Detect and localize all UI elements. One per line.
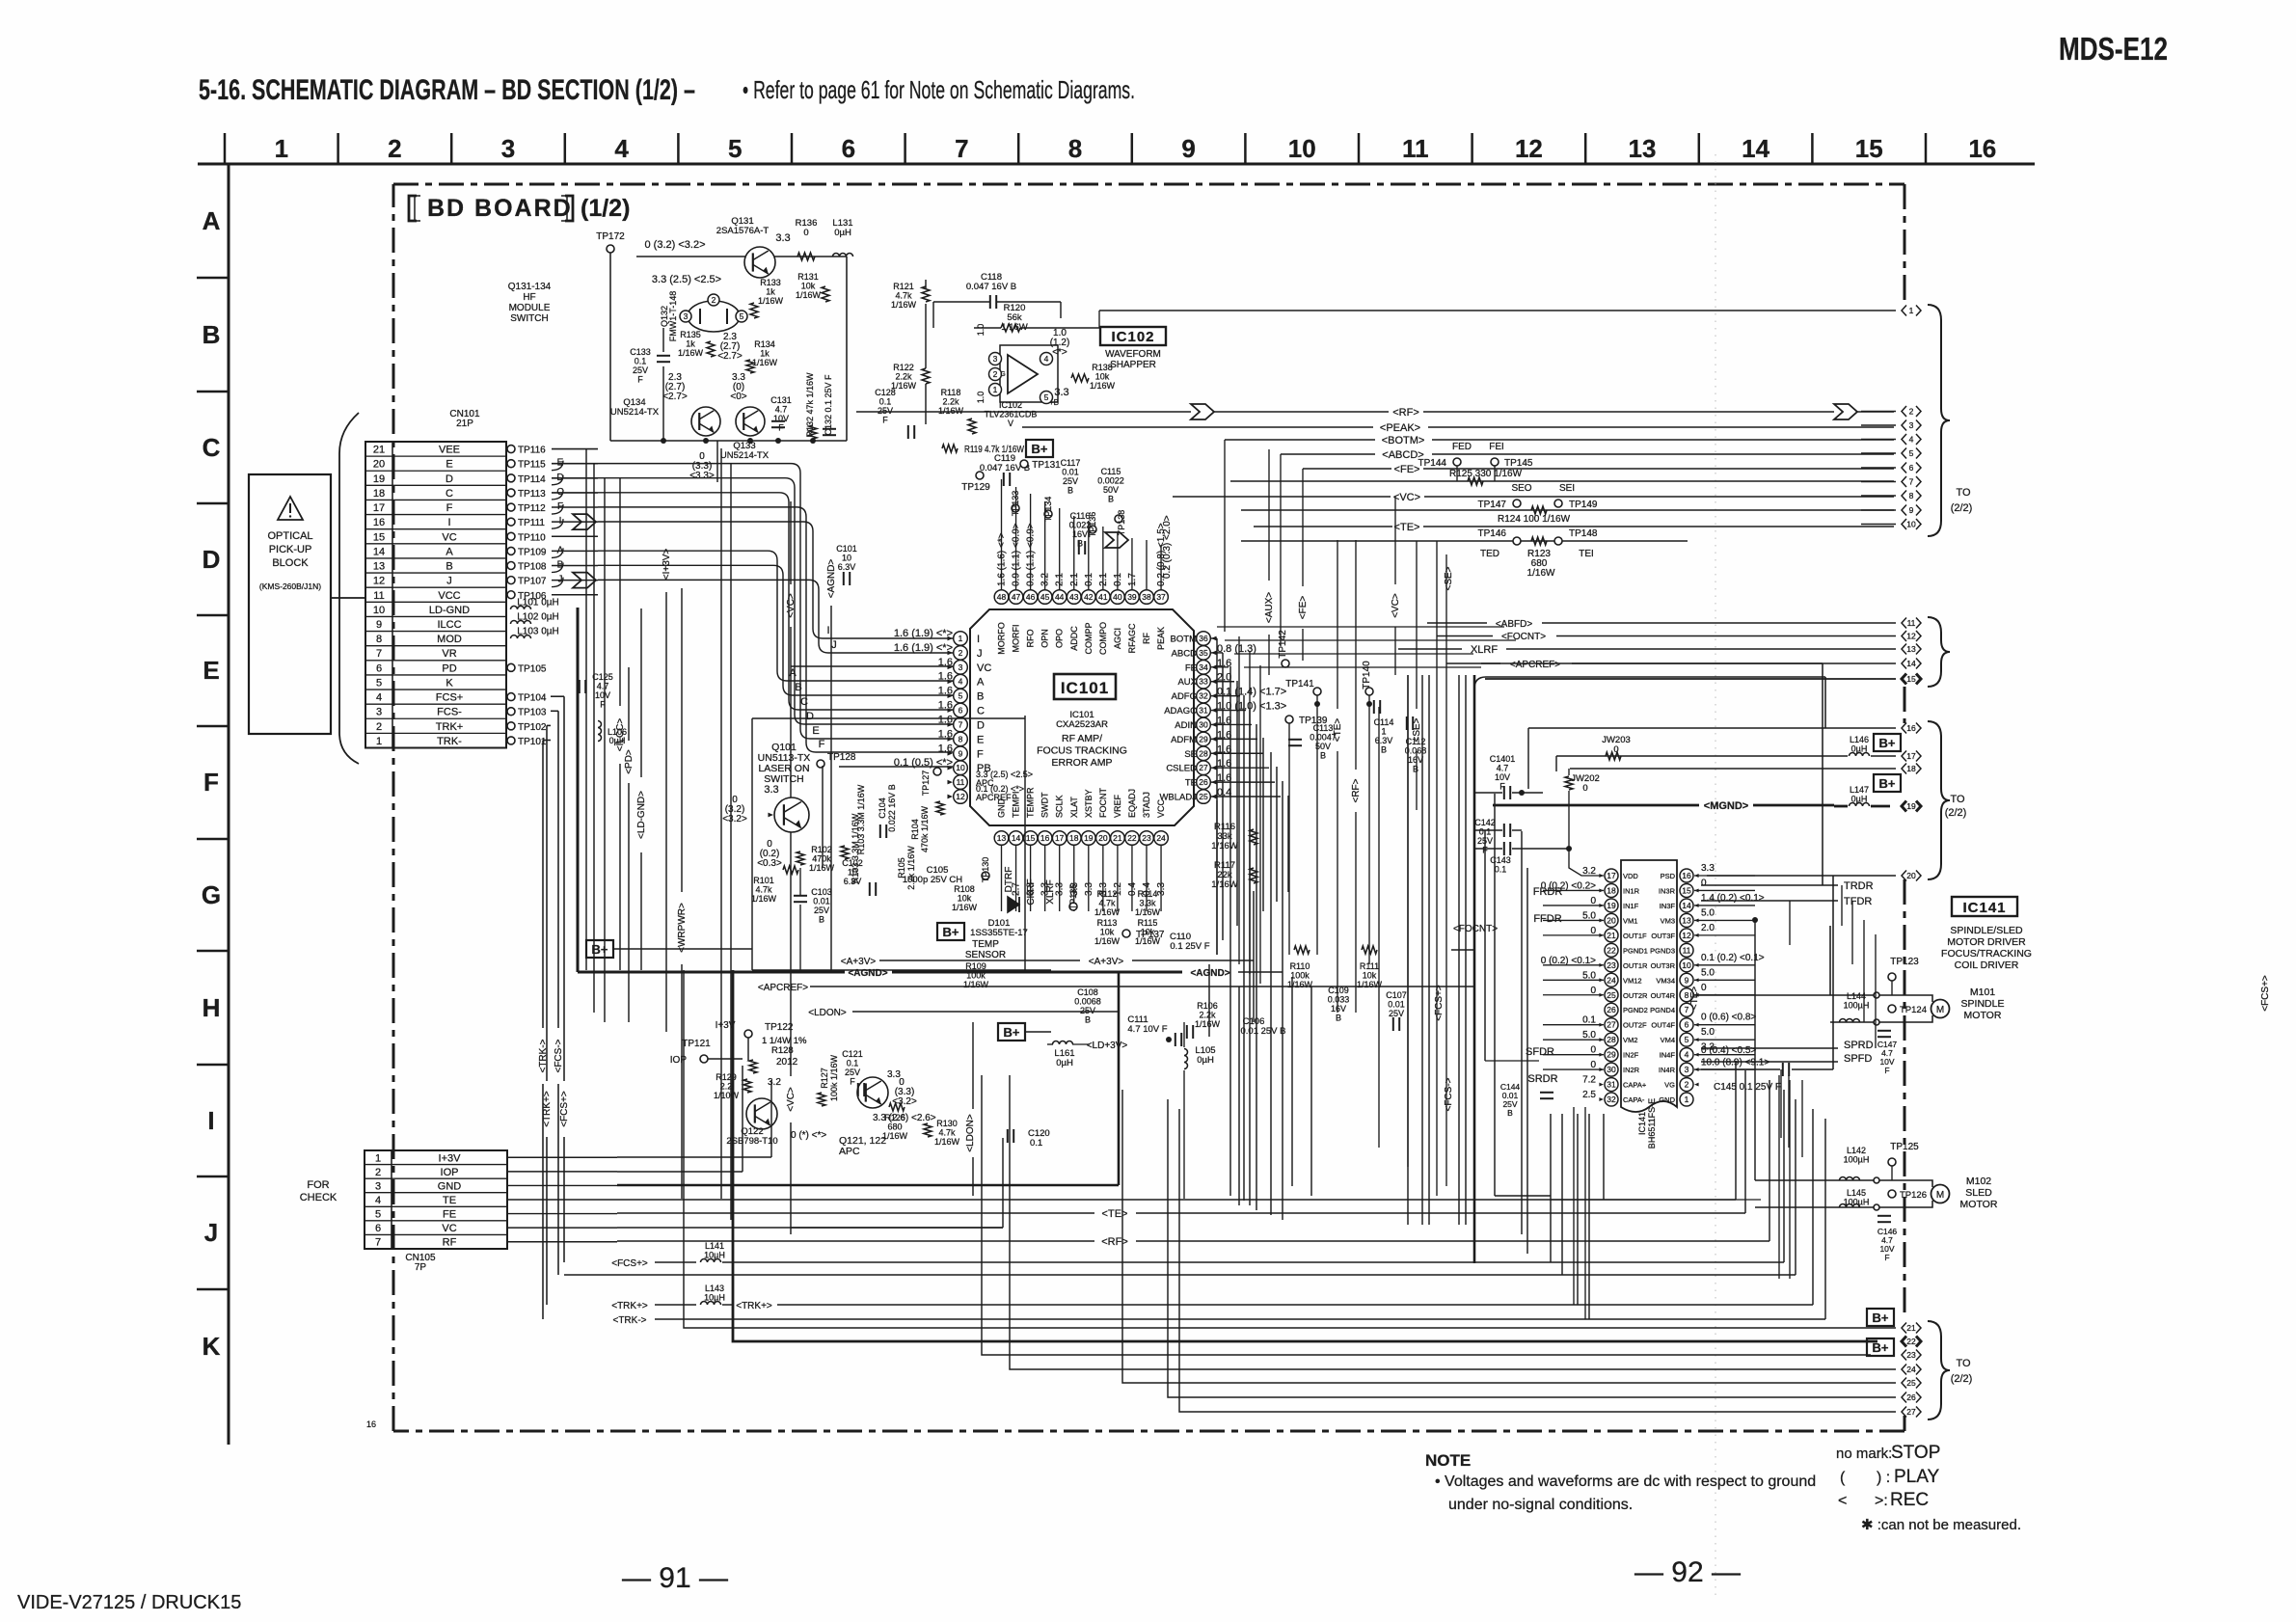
svg-text:FED: FED (1452, 442, 1472, 452)
svg-text:VIDE-V27125 / DRUCK15: VIDE-V27125 / DRUCK15 (17, 1592, 241, 1613)
svg-text:TP137: TP137 (1136, 930, 1165, 940)
svg-text:TO: TO (1956, 487, 1971, 499)
svg-text:<LDON>: <LDON> (808, 1008, 847, 1018)
svg-text:ADFG: ADFG (1172, 691, 1197, 702)
svg-text:TP141: TP141 (1285, 679, 1314, 689)
svg-text:UN5214-TX: UN5214-TX (610, 407, 660, 418)
svg-text:<BOTM>: <BOTM> (1382, 435, 1425, 446)
svg-text:TP136: TP136 (1088, 512, 1097, 538)
svg-text:0 (0.6) <0.8>: 0 (0.6) <0.8> (1701, 1013, 1756, 1023)
wire row23 (982, 1075, 1871, 1355)
svg-text:L101 0µH: L101 0µH (517, 597, 559, 608)
svg-text:6: 6 (959, 706, 963, 716)
svg-text:H: H (203, 993, 221, 1022)
IC101 pin 34 FE (1197, 661, 1211, 675)
svg-text:5: 5 (1044, 392, 1049, 402)
svg-text:3: 3 (1909, 420, 1914, 430)
svg-text:<TRK->: <TRK-> (612, 1315, 646, 1326)
svg-text:TP140: TP140 (1362, 661, 1372, 689)
svg-text:GND: GND (997, 798, 1007, 819)
capacitor C147 (1877, 1030, 1891, 1032)
svg-text:40: 40 (1113, 592, 1122, 602)
svg-text:3: 3 (1685, 1065, 1689, 1074)
svg-text:16: 16 (1906, 723, 1916, 733)
svg-text:14: 14 (1742, 134, 1769, 163)
svg-text:31: 31 (1607, 1080, 1616, 1090)
svg-text:0.1 25V F: 0.1 25V F (1170, 941, 1209, 952)
svg-text:2.2k: 2.2k (942, 397, 959, 407)
svg-text:F: F (819, 739, 825, 750)
svg-text:R128: R128 (771, 1045, 794, 1056)
edge connector 7 (1861, 481, 1896, 483)
svg-text:4: 4 (1685, 1050, 1689, 1060)
svg-text:15: 15 (373, 531, 385, 543)
svg-text:<WRPWR>: <WRPWR> (677, 903, 688, 953)
IC141 pin 28 VM2 (1605, 1033, 1618, 1046)
svg-text:I: I (447, 517, 450, 528)
svg-text:5.0: 5.0 (1701, 1027, 1715, 1038)
svg-text:5: 5 (375, 1209, 381, 1221)
svg-text:XLAT: XLAT (1069, 797, 1079, 818)
svg-text:C132 0.1 25V F: C132 0.1 25V F (824, 374, 833, 436)
svg-text:13: 13 (1629, 134, 1657, 163)
svg-text:VC: VC (977, 662, 991, 674)
svg-text:C143: C143 (1490, 855, 1511, 865)
IC141 pin 25 OUT2R (1605, 988, 1618, 1002)
svg-text:OUT4F: OUT4F (1651, 1021, 1675, 1030)
svg-text:<APCREF>: <APCREF> (758, 983, 808, 993)
svg-text:IN3F: IN3F (1660, 902, 1676, 910)
svg-text:16V: 16V (1331, 1004, 1346, 1014)
svg-text:REC: REC (1890, 1490, 1929, 1510)
vertical bus WRPWR (681, 588, 683, 892)
svg-text:<FE>: <FE> (1394, 464, 1420, 475)
svg-text:MORFI: MORFI (1012, 625, 1021, 653)
svg-text:0.1: 0.1 (635, 357, 647, 366)
svg-text:A: A (977, 677, 985, 689)
svg-text:1: 1 (375, 1152, 381, 1164)
svg-text:SPINDLE/SLED: SPINDLE/SLED (1950, 925, 2023, 936)
IC141 pin 27 OUT2F (1605, 1018, 1618, 1032)
svg-text:2.2: 2.2 (720, 1082, 733, 1092)
svg-text:<FCS+>: <FCS+> (611, 1258, 648, 1269)
svg-text:TP103: TP103 (518, 708, 547, 718)
net row7 R125 (1230, 480, 1894, 482)
svg-text:TE: TE (1185, 778, 1197, 789)
svg-text:MOTOR: MOTOR (1960, 1199, 1998, 1210)
svg-text:41: 41 (1098, 592, 1108, 602)
IC101 pin 22 EQADJ (1125, 831, 1140, 846)
svg-text:10k: 10k (1363, 971, 1377, 981)
svg-text:25: 25 (1199, 792, 1208, 801)
svg-text:C109: C109 (1328, 986, 1349, 995)
svg-text:0.1: 0.1 (1495, 865, 1507, 875)
svg-text:TP126: TP126 (1900, 1190, 1927, 1201)
svg-text:FCS-: FCS- (437, 707, 462, 718)
svg-text:18: 18 (1069, 833, 1079, 843)
IC101 pin 18 XLAT (1067, 831, 1081, 846)
vertical bus ILCC (619, 477, 621, 706)
svg-text:VM34: VM34 (1656, 976, 1675, 985)
IC141 pin 5 VM4 (1680, 1033, 1693, 1046)
svg-text:1: 1 (1381, 727, 1386, 737)
edge connector 5 (1861, 452, 1896, 454)
svg-text:C: C (446, 488, 453, 500)
edge connector 3 (1861, 424, 1896, 426)
op-amp IC102 (1000, 345, 1058, 402)
svg-text:3.3 (2.5) <2.5>: 3.3 (2.5) <2.5> (976, 770, 1033, 779)
svg-text:16: 16 (373, 517, 385, 528)
svg-text:3: 3 (501, 134, 515, 163)
svg-text:5: 5 (1909, 448, 1914, 458)
svg-text:31: 31 (1199, 706, 1208, 716)
svg-text:2.2k: 2.2k (895, 372, 912, 382)
svg-text:10: 10 (956, 763, 965, 772)
svg-text:14: 14 (373, 546, 385, 557)
IC141 pin 14 IN3F (1680, 899, 1693, 912)
svg-text:25V: 25V (1389, 1009, 1404, 1018)
svg-text:C: C (800, 696, 808, 708)
svg-text:TP146: TP146 (1478, 528, 1507, 539)
edge connector 10 (1861, 524, 1896, 526)
svg-text:1: 1 (1685, 1095, 1689, 1104)
svg-text:<TRK+>: <TRK+> (611, 1301, 648, 1311)
svg-text:21: 21 (1906, 1323, 1916, 1333)
svg-text:OPN: OPN (1040, 629, 1050, 648)
svg-text:25V: 25V (814, 906, 829, 915)
svg-text:100k 1/16W: 100k 1/16W (829, 1054, 839, 1101)
svg-text:23: 23 (1607, 960, 1616, 970)
net VC row (1173, 496, 1391, 498)
svg-text:VREF: VREF (1113, 794, 1122, 818)
svg-text:SENSOR: SENSOR (965, 950, 1006, 960)
svg-text:5-16. SCHEMATIC DIAGRAM – BD S: 5-16. SCHEMATIC DIAGRAM – BD SECTION (1/… (199, 74, 695, 106)
wire row24 (1010, 1075, 1896, 1369)
svg-text:IN1R: IN1R (1623, 886, 1640, 895)
connector CN105 (365, 1150, 507, 1249)
svg-text:J: J (977, 648, 983, 660)
svg-text:R130: R130 (936, 1119, 958, 1128)
IC101 pin 43 ADDC (1067, 590, 1081, 605)
svg-text:<TE>: <TE> (1102, 1208, 1128, 1220)
svg-text:C114: C114 (1374, 717, 1394, 727)
IC101 pin 41 COMPO (1096, 590, 1111, 605)
svg-text:RFAGC: RFAGC (1127, 623, 1137, 654)
svg-text:18: 18 (1607, 885, 1616, 895)
svg-text:8: 8 (1909, 491, 1914, 500)
vertical bus LD-GND (640, 608, 642, 777)
IC101 pin 27 CSLED (1197, 761, 1211, 775)
IC141 pin 3 IN4R (1680, 1063, 1693, 1076)
bottom horizontals extra (791, 1227, 1003, 1229)
svg-text:RF: RF (1142, 633, 1151, 644)
svg-text:IC141: IC141 (1637, 1112, 1647, 1135)
svg-text:ILCC: ILCC (437, 619, 461, 631)
svg-text:TP109: TP109 (518, 547, 547, 557)
svg-text:F: F (977, 748, 984, 760)
svg-text:WAVEFORM: WAVEFORM (1105, 349, 1161, 360)
transistor Q122 (746, 1098, 777, 1129)
svg-text:TP108: TP108 (518, 562, 547, 573)
svg-text:<VC>: <VC> (786, 1087, 797, 1112)
TP146 R123 TP148 row (1241, 540, 1688, 542)
svg-text:TP124: TP124 (1900, 1005, 1927, 1015)
svg-text:CAPA-: CAPA- (1623, 1095, 1645, 1104)
svg-text:SPINDLE: SPINDLE (1961, 998, 2005, 1010)
edge brace 21-27 (1928, 1321, 1950, 1419)
svg-text:0.033: 0.033 (1328, 995, 1350, 1005)
svg-text:12: 12 (1515, 134, 1543, 163)
svg-text:XSTBY: XSTBY (1084, 789, 1094, 818)
test point TP126 (1888, 1190, 1896, 1198)
svg-text:6: 6 (1685, 1020, 1689, 1030)
svg-text:R134: R134 (754, 339, 775, 349)
svg-text:FOCUS TRACKING: FOCUS TRACKING (1037, 745, 1127, 757)
IC101 pin 4 A (954, 674, 968, 689)
IC101 pin 38 RF (1140, 590, 1154, 605)
svg-text:1/16W: 1/16W (809, 863, 835, 873)
vertical bus PD (628, 667, 630, 741)
wire VM3 junction (1754, 920, 1756, 1180)
svg-text:PLAY: PLAY (1894, 1467, 1940, 1487)
svg-text:M102: M102 (1966, 1176, 1991, 1187)
IC101 pin 40 AGCI (1111, 590, 1125, 605)
svg-text:(1/2): (1/2) (581, 195, 630, 222)
svg-text:2: 2 (388, 134, 401, 163)
svg-text:B+: B+ (1873, 1311, 1889, 1325)
svg-text:<LDON>: <LDON> (965, 1114, 976, 1152)
svg-text:R103 3.3M 1/16W: R103 3.3M 1/16W (851, 813, 860, 883)
optical pick-up block (249, 474, 331, 734)
svg-text:0.2 (0.3) <2.0>: 0.2 (0.3) <2.0> (1162, 515, 1173, 579)
svg-text:TLV2361CDB: TLV2361CDB (985, 410, 1038, 419)
IC101 pin 17 SCLK (1052, 831, 1067, 846)
svg-text:F: F (778, 423, 784, 433)
svg-text:R108: R108 (954, 884, 975, 894)
svg-text:10k: 10k (958, 894, 972, 904)
svg-text:7: 7 (1685, 1005, 1689, 1014)
svg-text:TP127: TP127 (921, 770, 931, 797)
svg-text:G: G (202, 880, 221, 909)
vertical bus pair mid (720, 448, 722, 1199)
svg-text:C142: C142 (1474, 818, 1496, 827)
svg-text:B: B (819, 915, 824, 925)
svg-text:4.7: 4.7 (597, 682, 609, 691)
svg-text:1/16W: 1/16W (678, 348, 704, 358)
svg-text:E: E (446, 459, 452, 471)
vertical bus AGND col (830, 606, 832, 972)
test point TP131 (1020, 460, 1028, 468)
connector CN101 (365, 442, 506, 748)
svg-text:C133: C133 (630, 347, 651, 357)
svg-text:25: 25 (1906, 1378, 1916, 1388)
arrow TP111 (573, 514, 596, 529)
svg-text:23: 23 (1142, 833, 1151, 843)
svg-text:0.047 16V B: 0.047 16V B (966, 282, 1016, 292)
IC101 pin 5 B (954, 689, 968, 703)
svg-text:GND: GND (1659, 1095, 1675, 1104)
svg-text:<MGND>: <MGND> (1704, 800, 1748, 812)
motor M101 (1931, 1000, 1950, 1018)
svg-text:E: E (203, 656, 219, 685)
svg-text:XLRF: XLRF (1045, 879, 1056, 905)
svg-text:1: 1 (959, 634, 963, 643)
svg-text:K: K (446, 677, 453, 689)
net RF row (1191, 404, 1214, 419)
svg-text:F: F (600, 700, 606, 710)
svg-text:VCC: VCC (1156, 798, 1166, 818)
IC141 pin 20 VM1 (1605, 913, 1618, 927)
svg-text:5: 5 (740, 311, 744, 321)
svg-text:+B: +B (1049, 398, 1059, 407)
svg-text:16: 16 (366, 1419, 376, 1429)
svg-text:IN4F: IN4F (1660, 1051, 1676, 1060)
wire fan I J A-F (598, 522, 953, 638)
svg-text:TP131: TP131 (1032, 460, 1061, 471)
svg-text:✱ :can not be measured.: ✱ :can not be measured. (1861, 1517, 2021, 1533)
svg-text:OUT2R: OUT2R (1623, 991, 1648, 1000)
svg-text:15: 15 (1682, 885, 1691, 895)
svg-text:<AGND>: <AGND> (1190, 968, 1229, 979)
svg-text:7.2: 7.2 (1582, 1075, 1596, 1086)
svg-text:1/16W: 1/16W (1287, 980, 1313, 989)
bottom mid risers (1291, 977, 1293, 1186)
svg-text:3: 3 (959, 662, 963, 672)
wires under IC141 (1780, 1069, 1782, 1138)
svg-text:IN2F: IN2F (1623, 1051, 1639, 1060)
svg-text:PGND1: PGND1 (1623, 946, 1648, 955)
svg-text:1/16W: 1/16W (1094, 907, 1121, 917)
svg-text:48: 48 (997, 592, 1007, 602)
svg-text:5: 5 (959, 691, 963, 701)
svg-text:<RF>: <RF> (1392, 407, 1419, 419)
svg-text:0µH: 0µH (834, 228, 851, 238)
svg-text:VM1: VM1 (1623, 916, 1637, 925)
svg-text:15: 15 (1855, 134, 1883, 163)
svg-text:1: 1 (275, 134, 288, 163)
svg-text:— 91 —: — 91 — (622, 1562, 728, 1594)
svg-text:1/16W: 1/16W (1195, 1019, 1221, 1029)
svg-text:0µH: 0µH (609, 736, 626, 745)
edge connector 25 (1902, 1378, 1906, 1389)
svg-text:10V: 10V (773, 414, 789, 423)
svg-text:ABCD: ABCD (1172, 648, 1198, 659)
svg-text:B+: B+ (1004, 1025, 1020, 1040)
svg-text:0: 0 (1701, 878, 1707, 888)
IC101 pin 46 RFO (1023, 590, 1038, 605)
svg-text:APC: APC (839, 1146, 860, 1157)
IC141 pin 23 OUT1R (1605, 959, 1618, 972)
svg-text:9: 9 (959, 748, 963, 758)
svg-text:<FCS+>: <FCS+> (1434, 985, 1445, 1021)
svg-text:0: 0 (1582, 783, 1587, 794)
svg-text:25V: 25V (1080, 1006, 1095, 1015)
svg-text:<3.3>: <3.3> (689, 471, 715, 481)
svg-text:5.0: 5.0 (1701, 907, 1715, 918)
svg-text:<3.2>: <3.2> (722, 814, 747, 825)
svg-text:<A+3V>: <A+3V> (841, 957, 877, 967)
svg-text:TRK+: TRK+ (436, 721, 463, 733)
svg-text:33: 33 (1199, 677, 1208, 687)
net ABFD row (1427, 622, 1487, 624)
svg-text:<2.7>: <2.7> (662, 392, 688, 402)
IC141 pin 24 VM12 (1605, 973, 1618, 987)
IC141 pin 10 OUT3R (1680, 959, 1693, 972)
svg-text:(KMS-260B/J1N): (KMS-260B/J1N) (259, 581, 321, 591)
svg-text:TP102: TP102 (518, 722, 547, 733)
test point TP128 (817, 760, 824, 768)
svg-text:R127: R127 (820, 1068, 829, 1089)
svg-text:L146: L146 (1850, 735, 1869, 744)
svg-text:10V: 10V (595, 690, 610, 700)
wires IC141 right exiting (1694, 875, 1755, 877)
svg-text:3.3k: 3.3k (1139, 899, 1156, 908)
wire FCS/TRK drops (543, 740, 551, 742)
svg-text:STOP: STOP (1891, 1443, 1940, 1463)
svg-text:FOCUS/TRACKING: FOCUS/TRACKING (1941, 948, 2032, 960)
svg-text:GND: GND (438, 1180, 462, 1192)
IC101 pin 7 D (954, 717, 968, 732)
resistor R126 (889, 1103, 905, 1111)
B+ box APC (998, 1023, 1025, 1041)
svg-text:19: 19 (1607, 901, 1616, 910)
svg-text:2.0: 2.0 (1701, 923, 1715, 933)
svg-text:TP130: TP130 (981, 857, 990, 883)
svg-text:14: 14 (1906, 659, 1916, 668)
svg-text:4.7k: 4.7k (1098, 899, 1116, 908)
svg-text:ADDC: ADDC (1069, 626, 1079, 651)
svg-text:A: A (789, 667, 797, 679)
svg-text:XLRF: XLRF (1471, 644, 1498, 656)
svg-text:SPRD: SPRD (1844, 1040, 1874, 1051)
net TE bottom (617, 1212, 1094, 1214)
svg-text:TP145: TP145 (1504, 458, 1533, 469)
svg-text:20: 20 (373, 459, 385, 471)
svg-text:VCC: VCC (438, 590, 460, 602)
svg-text:12: 12 (956, 792, 965, 801)
wire pin10 PB (839, 766, 953, 768)
Q101 bottom rail (752, 969, 1051, 971)
svg-text:L147: L147 (1850, 785, 1869, 795)
top rail (636, 256, 847, 257)
svg-text:VM12: VM12 (1623, 976, 1642, 985)
svg-text:11: 11 (1907, 618, 1916, 628)
svg-text:F: F (637, 375, 643, 385)
svg-text:4.7: 4.7 (775, 405, 788, 415)
svg-text:R124 100 1/16W: R124 100 1/16W (1498, 514, 1571, 525)
IC141 body (1621, 860, 1677, 1112)
CN101 cable bracket (339, 413, 359, 764)
wire TP rows to bus (552, 448, 598, 450)
svg-text:VDD: VDD (1623, 872, 1638, 880)
svg-text:C104: C104 (878, 797, 887, 819)
net PEAK row (1022, 426, 1373, 428)
svg-text:I: I (977, 634, 980, 645)
svg-text:<VC>: <VC> (1391, 593, 1401, 618)
svg-text:TP128: TP128 (827, 752, 856, 763)
svg-text:C131: C131 (770, 395, 792, 405)
IC141 pin 29 IN2F (1605, 1048, 1618, 1062)
svg-text:NOTE: NOTE (1425, 1451, 1471, 1470)
svg-text:32: 32 (1607, 1095, 1616, 1104)
capacitor C120 (1007, 1129, 1009, 1143)
svg-text:<LD-GND>: <LD-GND> (636, 791, 647, 839)
svg-text:OUT3F: OUT3F (1651, 932, 1675, 940)
svg-text:1.6 (1.9) <*>: 1.6 (1.9) <*> (894, 628, 953, 639)
svg-text:B+: B+ (592, 942, 608, 957)
svg-text:R125 330 1/16W: R125 330 1/16W (1449, 469, 1523, 479)
svg-text:TP144: TP144 (1418, 458, 1447, 469)
